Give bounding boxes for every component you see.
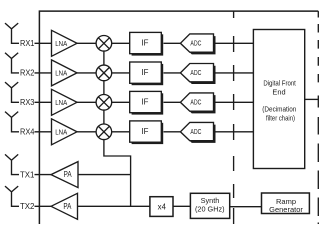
wire IF1 to ADC1 <box>164 42 181 44</box>
antenna TX1 <box>5 154 19 174</box>
svg-text:RX4: RX4 <box>20 127 35 137</box>
wire IF3 to ADC3 <box>164 101 181 103</box>
svg-text:LNA: LNA <box>55 127 68 136</box>
wire ADC1 to digital front end <box>216 42 254 44</box>
wire LNA1 to mixer1 <box>77 42 96 44</box>
IF block 4 <box>130 121 164 144</box>
IF block 3 <box>130 91 164 114</box>
wire ADC2 to digital front end <box>216 72 254 74</box>
svg-text:TX2: TX2 <box>20 201 35 211</box>
wire RX1 label to LNA1 <box>35 42 52 44</box>
dashed boundary line (left section divider) <box>233 11 235 224</box>
ADC block 4 <box>180 122 215 142</box>
label digital front end text <box>262 78 296 122</box>
wire synth to ramp generator <box>230 206 262 208</box>
dashed boundary line (right edge) <box>317 11 319 224</box>
ADC block 2 <box>180 64 215 85</box>
wire RX4 label to LNA4 <box>35 131 52 133</box>
wire PA1 to LO junction <box>78 174 131 176</box>
svg-text:TX1: TX1 <box>20 169 35 179</box>
digital front end block <box>253 30 304 169</box>
chip outline (solid left and top border) <box>39 11 318 224</box>
svg-text:x4: x4 <box>158 203 167 212</box>
svg-text:Synth: Synth <box>201 196 220 205</box>
mixer 3 <box>96 95 112 111</box>
antenna RX2 <box>5 53 19 73</box>
LO distribution wire (mixer column to TX/synth junction) <box>104 51 131 207</box>
svg-text:IF: IF <box>141 68 148 77</box>
wire mixer1 to IF1 <box>112 42 130 44</box>
wire PA2 to x4 multiplier <box>78 205 150 207</box>
svg-text:Generator: Generator <box>269 205 303 214</box>
LNA amplifier 1 <box>52 30 78 56</box>
wire TX1 label to PA1 <box>35 174 52 176</box>
IF block 1 <box>130 32 164 55</box>
svg-text:ADC: ADC <box>190 127 201 136</box>
wire RX2 label to LNA2 <box>35 72 52 74</box>
mixer 2 <box>96 65 112 81</box>
svg-text:PA: PA <box>63 202 72 211</box>
wire mixer4 to IF4 <box>112 131 130 133</box>
svg-text:ADC: ADC <box>190 68 201 77</box>
svg-text:IF: IF <box>141 127 148 136</box>
wire RX3 label to LNA3 <box>35 101 52 103</box>
wire mixer3 to IF3 <box>112 101 130 103</box>
PA amplifier 1 <box>51 162 78 188</box>
ADC block 1 <box>180 34 215 55</box>
mixer 4 <box>96 124 112 140</box>
ramp generator block <box>262 193 310 214</box>
label ramp generator text <box>269 197 303 214</box>
wire ADC3 to digital front end <box>216 101 254 103</box>
svg-text:LNA: LNA <box>55 98 68 107</box>
antenna RX3 <box>5 82 19 102</box>
svg-text:(20 GHz): (20 GHz) <box>195 205 225 214</box>
antenna RX1 <box>5 23 19 43</box>
wire IF2 to ADC2 <box>164 72 181 74</box>
svg-text:LNA: LNA <box>55 39 68 48</box>
wire mixer2 to IF2 <box>112 72 130 74</box>
LNA amplifier 2 <box>52 60 78 86</box>
svg-text:Digital Front: Digital Front <box>263 78 296 87</box>
svg-text:LNA: LNA <box>55 68 68 77</box>
wire ADC4 to digital front end <box>216 131 254 133</box>
IF block 2 <box>130 62 164 85</box>
svg-text:PA: PA <box>64 170 73 179</box>
antenna RX4 <box>5 112 19 132</box>
PA amplifier 2 <box>51 193 78 219</box>
wire LNA2 to mixer2 <box>77 72 96 74</box>
LNA amplifier 3 <box>52 89 78 115</box>
svg-text:IF: IF <box>141 98 148 107</box>
synth block <box>190 193 229 218</box>
wire LNA4 to mixer4 <box>77 131 96 133</box>
x4 multiplier block <box>150 197 173 217</box>
svg-text:RX2: RX2 <box>20 68 35 78</box>
label synth text <box>195 196 225 214</box>
svg-text:RX1: RX1 <box>20 38 35 48</box>
svg-text:IF: IF <box>141 39 148 48</box>
svg-text:ADC: ADC <box>190 39 201 48</box>
mixer 1 <box>96 36 112 52</box>
wire LNA3 to mixer3 <box>77 101 96 103</box>
wire x4 to synth <box>173 205 190 207</box>
ADC block 3 <box>180 93 215 114</box>
svg-text:End: End <box>272 87 285 96</box>
wire IF4 to ADC4 <box>164 131 181 133</box>
svg-text:RX3: RX3 <box>20 97 35 107</box>
svg-text:(Decimation: (Decimation <box>262 105 296 114</box>
LNA amplifier 4 <box>52 119 78 145</box>
svg-text:ADC: ADC <box>190 98 201 107</box>
antenna TX2 <box>5 186 19 206</box>
svg-text:filter chain): filter chain) <box>266 114 295 123</box>
wire TX2 label to PA2 <box>35 205 52 207</box>
wire DFE output to right boundary <box>305 98 319 100</box>
